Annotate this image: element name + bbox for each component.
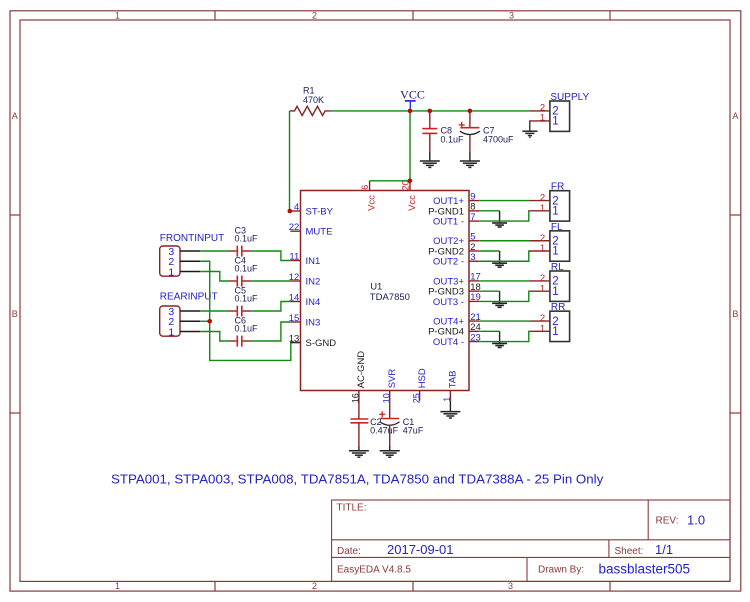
U1 reference labels (370, 281, 410, 303)
svg-text:0.1uF: 0.1uF (235, 293, 259, 303)
svg-text:1: 1 (552, 116, 558, 128)
svg-text:4700uF: 4700uF (483, 135, 514, 145)
wire OUT1- to FR pin 1 (479, 211, 529, 221)
svg-text:0.1uF: 0.1uF (235, 263, 259, 273)
wire OUT2- to FL pin 1 (479, 251, 529, 261)
FRONTINPUT pin stubs (180, 251, 200, 272)
svg-text:OUT1 -: OUT1 - (433, 217, 464, 228)
svg-text:1: 1 (540, 203, 545, 214)
wire C4 to IN2 (251, 280, 290, 282)
U1 left pin names (306, 206, 337, 349)
capacitor C8 (422, 111, 437, 161)
svg-text:HSD: HSD (417, 368, 428, 388)
junction node C8/wire (428, 109, 433, 114)
SUPPLY pin 1 stub (529, 120, 550, 122)
svg-text:0.1uF: 0.1uF (235, 233, 259, 243)
wire P-GND4 to ground (479, 330, 499, 332)
svg-text:470K: 470K (303, 95, 324, 105)
op-amp U1 TDA7850 body (301, 191, 470, 391)
svg-text:bassblaster505: bassblaster505 (599, 562, 691, 577)
svg-text:Drawn By:: Drawn By: (538, 565, 584, 576)
wire P-GND2 to ground (479, 250, 499, 252)
wire REARINPUT pin2 to bus (200, 320, 210, 322)
svg-text:0.47uF: 0.47uF (370, 425, 399, 435)
wire REARINPUT pin1 to C6 (200, 332, 228, 342)
capacitor C5 (200, 306, 251, 317)
U1 right pin stubs (469, 201, 479, 342)
SUPPLY pin 2 stub (529, 110, 550, 112)
C4 labels (235, 256, 259, 274)
wire TAB to ground (449, 401, 451, 412)
junction node C7/wire (468, 109, 473, 114)
wire OUT2+ to FL pin 2 (479, 240, 529, 242)
wire FRONTINPUT pin1 to C4 (200, 272, 228, 282)
svg-text:SVR: SVR (387, 369, 398, 389)
U1 bottom pin stubs (16, 10, 25, 1) (359, 391, 451, 401)
svg-text:Vcc: Vcc (407, 195, 418, 211)
ground FL (492, 263, 507, 267)
REARINPUT pin stubs (180, 311, 200, 332)
svg-text:23: 23 (470, 332, 481, 343)
svg-text:IN1: IN1 (306, 256, 321, 267)
C8 labels (441, 125, 465, 144)
ground RR (492, 343, 507, 347)
svg-text:22: 22 (289, 222, 300, 233)
C6 labels (235, 316, 259, 334)
wire C3 to IN1 (251, 251, 290, 261)
U1 left pin numbers (289, 202, 300, 344)
svg-text:1/1: 1/1 (655, 542, 673, 557)
svg-text:B: B (732, 309, 738, 319)
U1 bottom pin names (356, 351, 459, 389)
svg-text:6: 6 (360, 185, 370, 190)
svg-text:REV:: REV: (656, 516, 679, 527)
wire C5 to IN4 (251, 302, 290, 312)
svg-text:FRONTINPUT: FRONTINPUT (160, 233, 224, 244)
wire OUT3- to RL pin 1 (479, 291, 529, 301)
svg-text:11: 11 (289, 251, 299, 262)
svg-text:EasyEDA V4.8.5: EasyEDA V4.8.5 (337, 565, 411, 576)
U1 bottom pin numbers (351, 393, 453, 403)
svg-text:3: 3 (508, 581, 513, 591)
svg-text:0.1uF: 0.1uF (235, 323, 259, 333)
svg-text:14: 14 (289, 292, 300, 303)
svg-text:IN2: IN2 (306, 276, 321, 287)
svg-text:3: 3 (470, 252, 475, 263)
svg-text:AC-GND: AC-GND (356, 351, 367, 389)
ground FR (492, 223, 507, 227)
wire P-GND3 to ground (479, 290, 499, 292)
C2 labels (370, 417, 399, 436)
U1 top pin names Vcc (367, 195, 418, 211)
U1 top pin stubs (pin 6, pin 20) (370, 181, 410, 191)
svg-text:1: 1 (168, 326, 174, 338)
U1 right pin names (428, 196, 464, 348)
svg-text:MUTE: MUTE (306, 227, 333, 238)
ground below C1 (380, 451, 400, 457)
wire R1 left terminal down to ST-BY (289, 111, 291, 211)
U1 left pin stubs (290, 211, 300, 343)
netflag VCC (400, 87, 425, 108)
svg-text:15: 15 (289, 313, 300, 324)
capacitor C7 (electrolytic) (459, 111, 480, 161)
svg-text:2: 2 (312, 11, 317, 21)
svg-text:1: 1 (540, 283, 545, 294)
REARINPUT pin digits (168, 306, 174, 339)
R1 labels (303, 85, 324, 105)
junction node VCC/wire (408, 109, 413, 114)
wire OUT4- to RR pin 1 (479, 331, 529, 341)
svg-text:2: 2 (312, 581, 317, 591)
svg-text:Vcc: Vcc (367, 195, 378, 211)
svg-text:1: 1 (552, 286, 558, 298)
C1 labels (403, 417, 424, 436)
wire OUT4+ to RR pin 2 (479, 320, 529, 322)
wire pin 6 to pin 20 junction (370, 180, 410, 182)
svg-text:1: 1 (115, 581, 120, 591)
svg-text:1: 1 (540, 243, 545, 254)
svg-text:S-GND: S-GND (306, 338, 337, 349)
svg-text:ST-BY: ST-BY (306, 206, 334, 217)
svg-text:B: B (12, 309, 18, 319)
ground below C7 (460, 161, 480, 167)
junction node pin20 (408, 179, 413, 184)
svg-text:OUT4 -: OUT4 - (433, 337, 464, 348)
svg-text:TITLE:: TITLE: (337, 503, 367, 514)
capacitor C6 (229, 336, 252, 347)
svg-text:1: 1 (552, 206, 558, 218)
wire VCC node down to pin 20 junction (409, 109, 411, 181)
svg-text:STPA001, STPA003, STPA008, TDA: STPA001, STPA003, STPA008, TDA7851A, TDA… (111, 472, 604, 487)
svg-text:TAB: TAB (448, 371, 459, 389)
wire ground bus to S-GND (200, 261, 291, 360)
svg-text:OUT3 -: OUT3 - (433, 297, 464, 308)
svg-text:1: 1 (552, 246, 558, 258)
C7 labels (483, 125, 514, 144)
ground below SUPPLY (522, 131, 537, 137)
wire C6 to IN3 (251, 322, 290, 341)
svg-text:25: 25 (411, 393, 421, 403)
capacitor C4 (229, 276, 252, 287)
svg-text:1: 1 (552, 326, 558, 338)
svg-text:IN4: IN4 (306, 297, 321, 308)
svg-text:1: 1 (540, 112, 545, 123)
C5 labels (235, 286, 259, 304)
wire OUT3+ to RL pin 2 (479, 280, 529, 282)
svg-text:Date:: Date: (337, 546, 361, 557)
svg-text:1: 1 (540, 323, 545, 334)
svg-text:1: 1 (168, 266, 174, 278)
svg-text:1: 1 (115, 11, 120, 21)
svg-text:3: 3 (509, 11, 514, 21)
junction node bus/REARINPUT pin2 (207, 319, 212, 324)
C3 labels (235, 226, 259, 244)
svg-text:2017-09-01: 2017-09-01 (387, 542, 454, 557)
title block (332, 500, 730, 581)
ground below C8 (420, 161, 440, 167)
svg-text:U1: U1 (370, 281, 382, 292)
svg-text:A: A (732, 111, 738, 121)
ground below C2 (349, 451, 369, 457)
junction node ST-BY (288, 209, 293, 214)
resistor R1 (290, 106, 331, 115)
FRONTINPUT pin digits (168, 246, 174, 279)
svg-text:REARINPUT: REARINPUT (160, 292, 218, 303)
U1 right pin numbers (470, 191, 481, 343)
ground RL (492, 303, 507, 307)
svg-text:1.0: 1.0 (687, 513, 705, 528)
svg-text:12: 12 (289, 272, 300, 283)
U1 top pin numbers (360, 180, 410, 190)
capacitor C1 (electrolytic) (379, 401, 399, 451)
svg-text:OUT2 -: OUT2 - (433, 257, 464, 268)
wire OUT1+ to FR pin 2 (479, 200, 529, 202)
svg-text:7: 7 (470, 212, 475, 223)
svg-text:47uF: 47uF (403, 425, 424, 435)
capacitor C3 (200, 246, 251, 257)
wire R1 right to SUPPLY pin 2 (331, 110, 530, 112)
SUPPLY pin numbers (540, 102, 545, 123)
svg-text:VCC: VCC (400, 87, 425, 101)
svg-text:TDA7850: TDA7850 (370, 292, 410, 303)
svg-text:R1: R1 (303, 85, 315, 95)
svg-text:19: 19 (470, 292, 481, 303)
svg-text:0.1uF: 0.1uF (441, 135, 465, 145)
wire SUPPLY pin1 to ground (529, 121, 531, 131)
ground below TAB (440, 412, 460, 418)
wire P-GND1 to ground (479, 210, 499, 212)
svg-text:Sheet:: Sheet: (615, 546, 644, 557)
capacitor C2 (350, 401, 368, 451)
svg-text:IN3: IN3 (306, 317, 321, 328)
svg-text:A: A (12, 111, 18, 121)
svg-text:4: 4 (294, 202, 299, 213)
